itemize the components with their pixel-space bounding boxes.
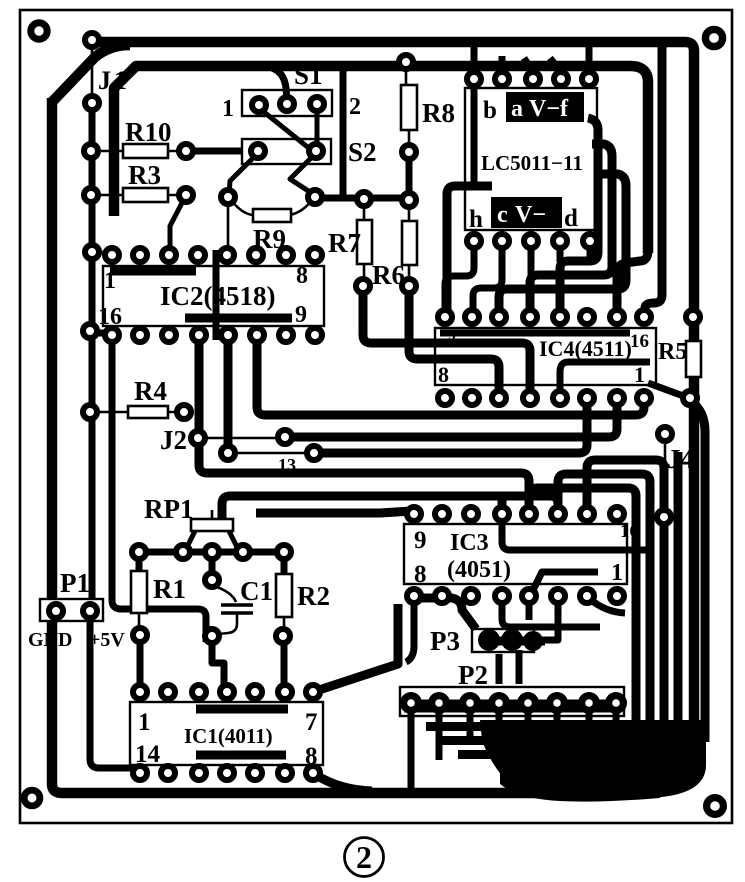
IC1 outline: [130, 702, 323, 765]
resistor R9: [231, 200, 312, 215]
wire bus D: [199, 339, 529, 510]
wire R1 to IC1: [137, 642, 144, 688]
capacitor C1: [209, 558, 216, 573]
wire IC1 to bottom rail: [316, 775, 372, 791]
wire right nest v6: [645, 46, 662, 312]
resistor R3: [98, 194, 179, 197]
wire R7 into IC4: [363, 293, 530, 394]
svg-text:IC1(4011): IC1(4011): [184, 724, 273, 748]
svg-text:R1: R1: [153, 574, 186, 604]
wire bus F diag: [256, 511, 412, 513]
svg-text:d: d: [564, 205, 578, 232]
switch S1 box: [242, 90, 332, 116]
svg-text:J1: J1: [98, 66, 130, 95]
wire R5 down curve: [692, 402, 705, 742]
svg-text:+5V: +5V: [89, 629, 125, 651]
wire IC4 top inner bar: [440, 330, 630, 337]
resistor R4: [97, 411, 177, 414]
wire IC2 inner bars: [110, 267, 196, 276]
svg-text:1: 1: [138, 709, 151, 736]
display segment box a: [506, 92, 584, 122]
resistor R7: [357, 220, 372, 264]
wire C1 to IC1: [212, 642, 224, 688]
svg-text:R5: R5: [658, 339, 687, 365]
wire IC3 to P2 feeds: [406, 602, 414, 662]
IC4 outline: [435, 328, 656, 385]
wire IC3 pads 1-2 bar: [418, 598, 476, 629]
wire IC3 inner bar: [502, 518, 648, 550]
wire IC1 inner bars: [196, 705, 288, 714]
wire IC4 left feed: [447, 186, 492, 310]
resistor R2: [281, 558, 288, 574]
svg-text:8: 8: [438, 362, 449, 387]
plate number circle 2: [345, 838, 384, 877]
svg-text:GND: GND: [28, 629, 72, 651]
wire R10 to S2: [192, 148, 252, 155]
resistor R10: [98, 150, 179, 153]
wire right nest v3: [560, 118, 598, 310]
wire left rail A: [52, 98, 560, 793]
wire J1 stub: [91, 44, 94, 100]
resistor R1: [136, 558, 143, 571]
svg-text:2: 2: [349, 94, 361, 120]
svg-text:16: 16: [630, 331, 649, 352]
wire top rail T2: [114, 66, 648, 253]
wire IC4 inner stair to R5: [560, 362, 650, 394]
pads layer: [49, 33, 700, 780]
wire diagonal top-left: [52, 45, 130, 102]
svg-text:16: 16: [620, 521, 639, 542]
svg-text:RP1: RP1: [144, 494, 194, 524]
mounting hole bottom-right: [707, 798, 724, 815]
svg-text:LC5011−11: LC5011−11: [481, 151, 583, 175]
svg-text:V−f: V−f: [529, 96, 569, 122]
svg-text:9: 9: [448, 327, 456, 344]
svg-text:R7: R7: [328, 228, 361, 258]
svg-text:8: 8: [414, 561, 427, 588]
svg-text:R8: R8: [422, 98, 455, 128]
svg-text:1: 1: [634, 362, 645, 387]
wire mass bar 1: [426, 722, 636, 731]
svg-text:IC3: IC3: [450, 530, 489, 556]
wire bus C: [228, 339, 587, 453]
wire bus E: [222, 496, 558, 519]
wire P2 pad drops: [411, 709, 616, 790]
svg-text:R4: R4: [134, 376, 167, 406]
svg-text:1: 1: [611, 560, 623, 586]
wire R2 to IC1: [281, 642, 288, 688]
svg-text:8: 8: [296, 263, 308, 289]
resistor R6: [402, 221, 417, 265]
svg-text:R3: R3: [128, 160, 161, 190]
display segment box c: [491, 197, 562, 228]
wire right nest v2: [617, 250, 648, 310]
node J4: [664, 441, 667, 512]
wire left rail B: [89, 100, 96, 604]
svg-text:(4051): (4051): [447, 557, 511, 583]
svg-text:a: a: [511, 96, 523, 122]
svg-text:J2: J2: [160, 425, 187, 455]
wire mass bar 3: [458, 750, 660, 759]
mounting hole top-right: [705, 29, 722, 46]
IC2 outline: [103, 266, 324, 326]
wire right nest v5: [499, 174, 626, 310]
svg-text:h: h: [469, 206, 483, 233]
svg-text:b: b: [483, 97, 497, 124]
display LC5011 outline: [465, 88, 597, 230]
svg-text:9: 9: [414, 527, 427, 554]
wire right nest v4: [530, 144, 612, 310]
bottom-right copper mass: [480, 720, 706, 800]
svg-text:2: 2: [356, 839, 372, 875]
wire IC1 diag to P2: [316, 604, 398, 691]
wire S1 feed from T2: [272, 68, 287, 100]
wire bus B: [285, 403, 617, 437]
wire IC3 right staircases: [587, 460, 664, 735]
svg-text:c: c: [497, 202, 508, 228]
svg-text:P1: P1: [60, 568, 90, 598]
svg-text:C1: C1: [240, 576, 273, 606]
svg-text:R2: R2: [297, 581, 330, 611]
wire S1-S2 links: [259, 108, 310, 149]
wire S1 rail x343: [340, 70, 347, 199]
switch S2 box: [242, 139, 331, 164]
wire LC top stubs: [474, 47, 589, 72]
wire top rail T1: [97, 42, 694, 765]
wire junction y199: [320, 195, 409, 202]
wire rail B below P1: [90, 618, 138, 773]
wire mass bar 2: [442, 736, 650, 745]
svg-text:7: 7: [305, 709, 318, 736]
IC3 outline: [404, 524, 627, 584]
svg-text:S2: S2: [348, 137, 377, 167]
svg-text:V−: V−: [515, 202, 546, 228]
wire P3 links: [480, 637, 545, 646]
mounting hole top-left: [31, 23, 47, 39]
wire LC interior left drop: [471, 84, 478, 186]
resistor R5: [686, 341, 701, 377]
mounting hole bottom-left: [24, 790, 40, 806]
svg-text:1: 1: [222, 96, 234, 122]
wire R6 into IC4: [409, 293, 499, 394]
wire IC4 corner to R5: [648, 383, 686, 397]
svg-text:R10: R10: [125, 117, 172, 147]
svg-text:P3: P3: [430, 626, 460, 656]
svg-text:P2: P2: [458, 660, 488, 690]
wire rail C: [112, 332, 206, 642]
svg-text:9: 9: [295, 302, 307, 328]
resistor R8: [405, 69, 408, 85]
svg-text:IC4(4511): IC4(4511): [539, 336, 632, 361]
svg-text:S1: S1: [294, 60, 323, 90]
wire bus A: [257, 339, 644, 415]
wire R3 diag down: [170, 199, 184, 250]
wire LC bottom feeds: [445, 248, 474, 310]
